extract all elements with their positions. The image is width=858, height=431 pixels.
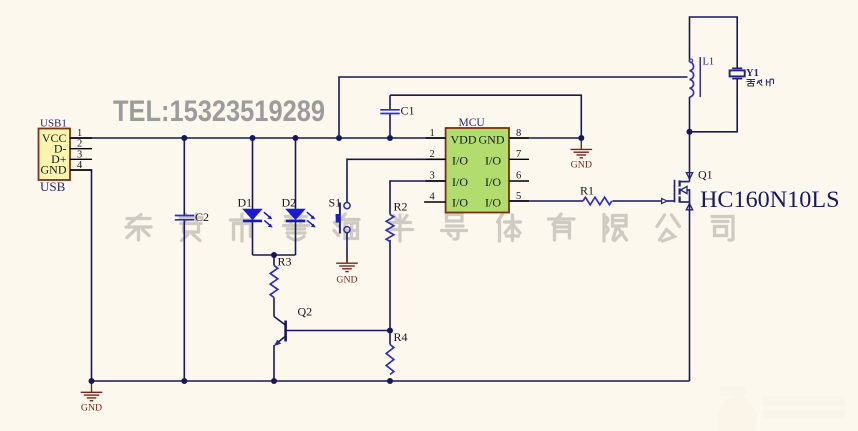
MOSFET Q1 — [662, 168, 713, 210]
wire C1 top loop to pin8 — [390, 95, 581, 138]
pin 2 MCU — [426, 149, 446, 160]
pin 4 USB — [70, 160, 92, 171]
wire D2 anode — [295, 138, 297, 209]
wire C1 lower stem — [389, 114, 391, 138]
resistor R4 — [386, 330, 407, 375]
wire C2 upper stem — [183, 138, 185, 215]
wire D1 cathode down — [252, 221, 254, 255]
svg-text:R2: R2 — [394, 200, 408, 214]
svg-text:5: 5 — [516, 191, 521, 202]
svg-text:2: 2 — [77, 139, 82, 150]
junction pin8 GND — [578, 135, 584, 141]
inductor L1 — [689, 57, 714, 98]
resistor R2 — [386, 200, 407, 242]
watermark text 东莞市慧海半导体有限公司 — [126, 214, 733, 241]
svg-text:6: 6 — [516, 171, 521, 182]
wire Q2 base to R4 node — [286, 330, 390, 332]
pin 5 MCU — [509, 191, 529, 202]
wire S1 to MCU pin2 — [347, 159, 446, 202]
wire top loop L1 to Y1 — [690, 17, 738, 68]
svg-text:4: 4 — [430, 192, 436, 203]
pin 1 USB — [70, 128, 92, 139]
svg-text:MCU: MCU — [459, 117, 486, 129]
wire R1 to Q1 gate — [612, 200, 661, 202]
junction VCC-C2 — [181, 135, 187, 141]
transistor Q2 — [274, 305, 312, 347]
resistor R3 — [270, 255, 291, 298]
pin 3 USB — [70, 149, 92, 160]
svg-text:TEL:15323519289: TEL:15323519289 — [113, 95, 325, 128]
svg-text:I/O: I/O — [452, 196, 468, 210]
IC MCU — [446, 117, 509, 213]
svg-text:GND: GND — [336, 275, 357, 286]
pin 8 MCU — [509, 128, 529, 139]
svg-text:L1: L1 — [703, 57, 715, 68]
pin 1 MCU — [426, 128, 446, 139]
wire D1 anode — [252, 138, 254, 209]
wire Y1 bottom to drain node — [690, 79, 738, 132]
svg-text:GND: GND — [41, 162, 67, 176]
wire VCC rail — [70, 137, 446, 139]
junction rail Q2 emitter — [271, 378, 277, 384]
wire L1 bottom to drain node — [689, 97, 691, 132]
wire node to R4 — [389, 331, 391, 345]
svg-text:Q1: Q1 — [698, 168, 713, 182]
ground GND left — [81, 381, 103, 414]
svg-text:R3: R3 — [278, 255, 292, 269]
wire R2 bottom to node — [389, 240, 391, 331]
wire MCU pin8 to GND — [509, 137, 581, 139]
svg-text:4: 4 — [77, 160, 83, 171]
phone number text — [113, 95, 325, 128]
svg-text:Y1: Y1 — [746, 68, 759, 79]
svg-text:I/O: I/O — [452, 175, 468, 189]
svg-text:8: 8 — [516, 128, 521, 139]
connector USB1 — [39, 118, 71, 195]
capacitor C1 — [380, 104, 414, 118]
junction VCC-D1 — [250, 135, 256, 141]
svg-text:GND: GND — [479, 133, 505, 147]
svg-text:I/O: I/O — [485, 175, 501, 189]
svg-text:C1: C1 — [401, 104, 415, 118]
svg-text:I/O: I/O — [452, 154, 468, 168]
svg-text:R4: R4 — [394, 330, 408, 344]
junction rail R4 — [387, 378, 393, 384]
pin 2 USB — [70, 139, 92, 150]
junction VCC-L1 tap — [336, 135, 342, 141]
wire D1-D2 join — [253, 254, 296, 256]
label 雾化片 — [747, 79, 774, 86]
svg-text:1: 1 — [77, 128, 82, 139]
junction VCC-C1 — [387, 135, 393, 141]
junction drain node — [687, 129, 693, 135]
wire C2 lower stem — [183, 220, 185, 381]
svg-text:2: 2 — [430, 149, 435, 160]
wire S1 bottom to GND — [346, 233, 348, 262]
wire VCC tap up to inductor — [339, 77, 688, 138]
pin 3 MCU — [426, 171, 446, 182]
wire node to R3 — [273, 255, 275, 266]
svg-text:R1: R1 — [580, 184, 594, 198]
svg-text:C2: C2 — [195, 210, 209, 224]
wire R4 to ground rail — [389, 379, 391, 381]
ground GND under S1 — [336, 255, 358, 286]
capacitor C2 — [175, 210, 209, 224]
svg-text:VDD: VDD — [451, 133, 477, 147]
junction rail GND — [89, 378, 95, 384]
LED D1 — [238, 196, 273, 228]
pin 7 MCU — [509, 149, 529, 160]
svg-text:S1: S1 — [329, 196, 342, 210]
wire MCU pin5 to R1 — [509, 200, 583, 202]
wire R2 to MCU pin3 — [390, 181, 446, 215]
junction D1-D2-R3 — [271, 252, 277, 258]
pin 4 MCU — [424, 192, 446, 203]
wire D2 cathode down — [295, 221, 297, 255]
svg-text:I/O: I/O — [485, 196, 501, 210]
junction R2-R4-Q2 base — [387, 328, 393, 334]
wire C1 upper stem — [389, 95, 391, 109]
junction rail C2 — [181, 378, 187, 384]
wire drain node to Q1 — [689, 132, 691, 182]
svg-text:3: 3 — [430, 171, 435, 182]
svg-text:GND: GND — [571, 160, 592, 171]
crystal Y1 atomizer — [730, 68, 759, 79]
svg-text:GND: GND — [81, 403, 102, 414]
wire bottom ground rail — [92, 380, 690, 382]
faint corner logo — [717, 386, 845, 431]
pin 6 MCU — [509, 171, 529, 182]
svg-text:HC160N10LS: HC160N10LS — [700, 187, 840, 213]
wire R3 to Q2 collector — [273, 298, 275, 317]
junction VCC-D2 — [293, 135, 299, 141]
svg-text:I/O: I/O — [485, 154, 501, 168]
svg-text:USB: USB — [40, 179, 66, 194]
ground GND at MCU pin8 — [571, 138, 593, 171]
wire Q1 source to ground rail — [689, 202, 691, 381]
wire USB pin4 to ground rail — [70, 170, 92, 381]
wire Q2 emitter to ground rail — [273, 345, 275, 381]
svg-text:D2: D2 — [282, 196, 297, 210]
svg-text:3: 3 — [77, 149, 82, 160]
LED D2 — [282, 196, 316, 228]
svg-text:7: 7 — [516, 149, 521, 160]
resistor R1 — [580, 184, 612, 205]
switch S1 — [329, 196, 351, 234]
svg-text:D1: D1 — [238, 196, 253, 210]
svg-text:Q2: Q2 — [298, 305, 313, 319]
svg-text:1: 1 — [430, 128, 435, 139]
svg-text:USB1: USB1 — [40, 118, 67, 130]
